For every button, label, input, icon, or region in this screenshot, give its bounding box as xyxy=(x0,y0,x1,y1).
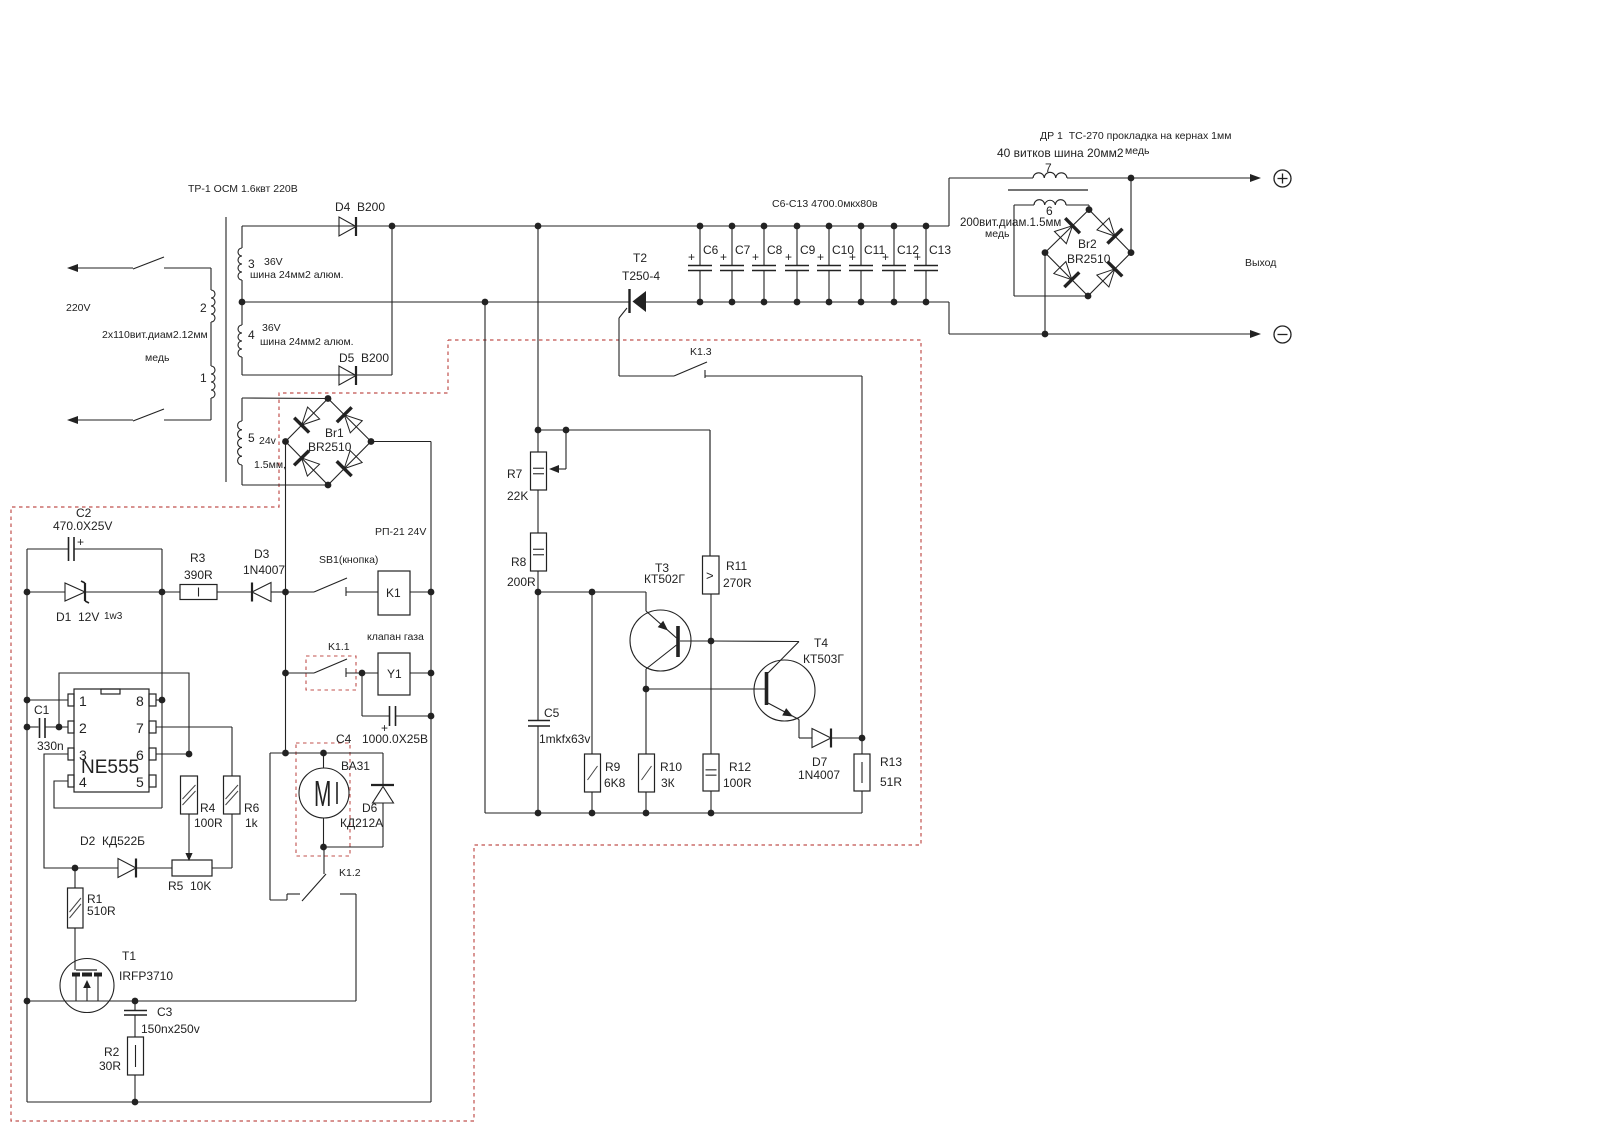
svg-text:D2 КД522Б: D2 КД522Б xyxy=(80,834,145,848)
wire left supply rail xyxy=(26,549,28,1102)
svg-text:С6-С13 4700.0мкх80в: С6-С13 4700.0мкх80в xyxy=(772,198,878,210)
svg-text:2: 2 xyxy=(200,301,207,315)
wire motor bottom xyxy=(320,844,383,851)
junction R7 top link xyxy=(535,427,542,434)
op-amp U1 NE555 body xyxy=(68,689,156,792)
wire T3 base to T4 collector xyxy=(711,640,799,643)
svg-text:1w3: 1w3 xyxy=(104,611,123,622)
resistor R4 xyxy=(181,776,224,830)
svg-text:1N4007: 1N4007 xyxy=(798,768,840,782)
transformer secondary winding 5 xyxy=(238,421,286,471)
bridge Br1 diode top-left xyxy=(294,407,319,432)
pin 2 label xyxy=(79,720,87,736)
wire K1.3 left xyxy=(619,375,674,377)
label primary winding note xyxy=(102,329,208,364)
svg-text:24v: 24v xyxy=(259,435,277,447)
wire K1 to right rail xyxy=(410,589,434,596)
wire Br1 plus rail down xyxy=(285,442,287,754)
svg-text:R2: R2 xyxy=(104,1045,120,1059)
pin 7 label xyxy=(136,720,144,736)
svg-text:3: 3 xyxy=(79,747,87,763)
diode D4 xyxy=(335,200,385,236)
resistor R3 xyxy=(162,551,252,600)
switch K1.3 xyxy=(674,346,712,378)
svg-text:T250-4: T250-4 xyxy=(622,269,660,283)
svg-text:1k: 1k xyxy=(245,816,259,830)
transformer secondary winding 4 xyxy=(238,322,354,357)
svg-text:1N4007: 1N4007 xyxy=(243,563,285,577)
svg-text:200вит.диам.1.5мм: 200вит.диам.1.5мм xyxy=(960,217,1061,229)
wire R4 wiper arrow xyxy=(185,814,192,861)
svg-text:Br2: Br2 xyxy=(1078,237,1097,251)
svg-text:36V: 36V xyxy=(264,256,283,268)
svg-text:D5 B200: D5 B200 xyxy=(339,351,389,365)
svg-text:+: + xyxy=(752,250,759,264)
svg-text:2х110вит.диам2.12мм: 2х110вит.диам2.12мм xyxy=(102,329,208,341)
svg-text:BR2510: BR2510 xyxy=(1067,252,1111,266)
wire R7-R8 xyxy=(537,490,539,533)
transistor T4 KT503G xyxy=(754,636,844,738)
wire winding6 right to Br2 top xyxy=(1066,205,1089,210)
svg-text:3К: 3К xyxy=(661,776,675,790)
svg-text:40 витков шина 20мм2: 40 витков шина 20мм2 xyxy=(997,146,1124,160)
capacitor C9 xyxy=(785,223,816,306)
label Vyhod xyxy=(1245,257,1276,269)
wire top rail xyxy=(242,225,949,227)
svg-text:C1: C1 xyxy=(34,703,50,717)
svg-text:8: 8 xyxy=(136,693,144,709)
wire secondary-4 bottom xyxy=(241,357,243,375)
svg-text:R10: R10 xyxy=(660,760,682,774)
wire SB1 left xyxy=(286,591,315,593)
wire center-tap branch vertical xyxy=(484,302,486,813)
svg-text:1000.0X25B: 1000.0X25B xyxy=(362,732,428,746)
svg-text:ТР-1 ОСМ 1.6квт 220В: ТР-1 ОСМ 1.6квт 220В xyxy=(188,183,298,195)
svg-text:51R: 51R xyxy=(880,775,902,789)
svg-text:390R: 390R xyxy=(184,568,213,582)
svg-text:R9: R9 xyxy=(605,760,621,774)
svg-text:470.0X25V: 470.0X25V xyxy=(53,519,112,533)
svg-text:КД212А: КД212А xyxy=(340,816,383,830)
svg-text:2: 2 xyxy=(79,720,87,736)
bridge Br1 edges xyxy=(286,399,372,486)
transformer secondary winding 3 xyxy=(238,248,344,281)
pin 5 label xyxy=(136,774,144,790)
svg-text:7: 7 xyxy=(1045,161,1052,175)
wire Br2 minus to output xyxy=(1042,253,1049,338)
label DR1 xyxy=(997,130,1231,160)
svg-text:R13: R13 xyxy=(880,755,902,769)
capacitor C2 xyxy=(27,506,162,561)
svg-text:220V: 220V xyxy=(66,302,91,314)
wire 220V top to primary xyxy=(164,268,211,290)
svg-text:Y1: Y1 xyxy=(387,667,402,681)
junction node center-tap xyxy=(239,299,246,306)
svg-text:R5 10K: R5 10K xyxy=(168,879,211,893)
wire motor top rail xyxy=(270,750,383,757)
capacitor C10 xyxy=(817,223,854,306)
svg-text:36V: 36V xyxy=(262,322,281,334)
svg-text:КТ502Г: КТ502Г xyxy=(644,572,685,586)
bridge Br2 diode bottom-left xyxy=(1054,262,1079,287)
wire secondary 3-4 junction xyxy=(241,280,243,325)
wire Br2 plus to output xyxy=(1130,178,1132,253)
svg-text:30R: 30R xyxy=(99,1059,121,1073)
wire pin1 xyxy=(24,697,68,704)
svg-text:100R: 100R xyxy=(723,776,752,790)
svg-text:1mkfx63v: 1mkfx63v xyxy=(539,732,590,746)
inductor DR1 winding 6 xyxy=(1034,200,1066,218)
svg-text:C2: C2 xyxy=(76,506,92,520)
svg-text:C5: C5 xyxy=(544,706,560,720)
wire SB1 to K1 xyxy=(346,591,378,593)
wire C4 right xyxy=(396,713,434,720)
svg-text:7: 7 xyxy=(136,720,144,736)
enclosure: red dashed box around motor/C4 block xyxy=(296,743,350,856)
svg-text:T4: T4 xyxy=(814,636,828,650)
svg-text:+: + xyxy=(849,250,856,264)
svg-text:330n: 330n xyxy=(37,739,64,753)
inductor DR1 core xyxy=(1008,189,1088,191)
svg-text:K1: K1 xyxy=(386,586,401,600)
svg-text:R4: R4 xyxy=(200,801,216,815)
wire D1 line xyxy=(24,589,166,596)
wire pin7 xyxy=(156,727,232,776)
label Br2 xyxy=(1067,237,1111,266)
svg-text:100R: 100R xyxy=(194,816,223,830)
resistor R6 xyxy=(224,776,260,830)
svg-text:D3: D3 xyxy=(254,547,270,561)
svg-text:IRFP3710: IRFP3710 xyxy=(119,969,173,983)
svg-text:C4: C4 xyxy=(336,732,352,746)
capacitor C3 xyxy=(124,1001,200,1037)
svg-text:+: + xyxy=(882,250,889,264)
terminal minus output xyxy=(1250,326,1291,343)
svg-text:+: + xyxy=(817,250,824,264)
pin 4 label xyxy=(79,774,87,790)
svg-text:D6: D6 xyxy=(362,801,378,815)
pin 6 label xyxy=(136,747,144,763)
svg-text:5: 5 xyxy=(136,774,144,790)
wire pin8 xyxy=(156,697,165,704)
diode D7 xyxy=(798,729,862,783)
bridge Br2 corner nodes xyxy=(1042,206,1135,299)
diode D3 xyxy=(243,547,286,602)
svg-text:6: 6 xyxy=(136,747,144,763)
wire K1.3 to R13 xyxy=(705,376,862,738)
junction top-rail R7 branch xyxy=(535,223,542,230)
wire wiper link xyxy=(538,427,710,556)
svg-text:22K: 22K xyxy=(507,489,528,503)
svg-text:шина 24мм2 алюм.: шина 24мм2 алюм. xyxy=(260,336,354,348)
svg-text:C3: C3 xyxy=(157,1005,173,1019)
svg-text:медь: медь xyxy=(145,352,170,364)
svg-text:+: + xyxy=(688,250,695,264)
transformer core xyxy=(225,217,227,482)
label capacitor bank C6-C13 xyxy=(772,198,878,210)
wire R1 top xyxy=(74,868,76,888)
junction K1.1 feed xyxy=(282,670,289,677)
wire R7 branch vertical xyxy=(537,226,539,452)
switch SW-bottom blade xyxy=(133,409,164,421)
capacitor C11 xyxy=(849,223,885,306)
diode D5 xyxy=(339,351,389,385)
svg-text:ДР 1 ТС-270 прокладка на керн: ДР 1 ТС-270 прокладка на кернах 1мм xyxy=(1040,130,1231,142)
svg-text:D4 B200: D4 B200 xyxy=(335,200,385,214)
wire 220V line bottom with arrow xyxy=(67,416,133,424)
resistor R8 xyxy=(507,533,547,589)
svg-text:+: + xyxy=(720,250,727,264)
wire T2 gate xyxy=(619,308,627,376)
svg-text:клапан газа: клапан газа xyxy=(367,631,424,643)
bridge Br1 diode bottom-right xyxy=(337,451,362,476)
wire pin2-pin6 link xyxy=(59,673,189,754)
enclosure: red dashed control-unit boundary xyxy=(11,340,921,1121)
zener D1 xyxy=(56,581,123,624)
wire pin2 xyxy=(45,726,68,728)
junction center-rail branch xyxy=(482,299,489,306)
resistor R1 xyxy=(68,888,117,928)
svg-text:РП-21 24V: РП-21 24V xyxy=(375,526,426,538)
junction D7 cathode xyxy=(859,735,866,742)
svg-text:R6: R6 xyxy=(244,801,260,815)
label 220V input xyxy=(66,302,91,314)
wire C4 left xyxy=(362,673,389,716)
bridge Br1 diode bottom-left xyxy=(294,451,319,476)
wire secondary-5 top xyxy=(241,398,243,421)
svg-text:шина 24мм2 алюм.: шина 24мм2 алюм. xyxy=(250,269,344,281)
svg-text:D1 12V: D1 12V xyxy=(56,610,99,624)
svg-text:6: 6 xyxy=(1046,204,1053,218)
switch K1.1 xyxy=(314,641,350,677)
svg-text:C13: C13 xyxy=(929,243,951,257)
junction D4 cathode xyxy=(389,223,396,230)
label Br1 xyxy=(308,426,352,454)
svg-text:SB1(кнопка): SB1(кнопка) xyxy=(319,554,378,566)
svg-text:K1.3: K1.3 xyxy=(690,346,712,358)
bridge Br2 diode bottom-right xyxy=(1097,262,1122,287)
wire 220V line top with arrow xyxy=(67,264,133,272)
svg-text:Br1: Br1 xyxy=(325,426,344,440)
motor BA31 xyxy=(299,753,370,847)
diode D6 xyxy=(340,753,394,847)
wire D5 line xyxy=(242,226,392,375)
transistor T1 IRFP3710 xyxy=(60,949,173,1013)
diode D2 xyxy=(80,834,145,878)
valve Y1 xyxy=(378,653,410,695)
wire secondary-3 top xyxy=(241,226,243,248)
resistor R2 xyxy=(99,1037,144,1075)
wire emitter line T3 xyxy=(538,589,646,596)
wire Y1 to right rail xyxy=(410,670,434,677)
wire D2 line xyxy=(44,865,172,872)
svg-text:270R: 270R xyxy=(723,576,752,590)
wire Vcc rail x162 xyxy=(161,549,163,808)
resistor R7 xyxy=(507,452,547,503)
wire R6 bottom xyxy=(212,814,232,868)
pin 3 label xyxy=(79,747,87,763)
transformer primary winding 1 xyxy=(200,366,215,398)
resistor R12 xyxy=(703,641,752,813)
svg-text:1.5мм,: 1.5мм, xyxy=(254,459,286,471)
enclosure: red dashed box around relay contact K1.1 xyxy=(306,656,356,690)
svg-text:медь: медь xyxy=(985,228,1010,240)
wire pin6 xyxy=(156,751,192,758)
svg-text:R11: R11 xyxy=(726,559,747,573)
wire motor loop left xyxy=(270,753,300,900)
resistor R13 xyxy=(854,738,902,813)
capacitor C4 xyxy=(336,706,428,746)
svg-text:C9: C9 xyxy=(800,243,816,257)
capacitor C8 xyxy=(752,223,783,306)
switch K1.2 xyxy=(302,847,361,901)
wire plus output xyxy=(949,178,1253,226)
svg-text:K1.2: K1.2 xyxy=(339,867,361,879)
wire coil5 to Br1 bottom xyxy=(242,484,328,486)
svg-text:1: 1 xyxy=(79,693,87,709)
label transformer TP-1 xyxy=(188,183,298,195)
svg-text:+: + xyxy=(785,250,792,264)
wire K1.1 left xyxy=(286,672,315,674)
svg-text:4: 4 xyxy=(248,328,255,342)
svg-text:C8: C8 xyxy=(767,243,783,257)
bridge Br2 diode top-left xyxy=(1054,218,1079,243)
bridge Br1 diode top-right xyxy=(337,407,362,432)
bridge Br2 edges xyxy=(1045,210,1131,296)
label klapan gaza xyxy=(367,631,424,643)
wire R2 bottom xyxy=(132,1075,139,1105)
svg-text:ВА31: ВА31 xyxy=(341,759,370,773)
junction T3 collector xyxy=(643,686,650,693)
capacitor C7 xyxy=(720,223,751,306)
capacitor C6 xyxy=(688,223,719,306)
label RP-21 xyxy=(375,526,426,538)
wire control block bottom rail xyxy=(485,810,862,817)
wire R8 bottom xyxy=(535,571,542,595)
pin 8 label xyxy=(136,693,144,709)
svg-text:Выход: Выход xyxy=(1245,257,1276,269)
svg-text:+: + xyxy=(77,535,84,549)
capacitor C12 xyxy=(882,223,919,306)
capacitor C5 xyxy=(528,592,590,813)
inductor DR1 winding 7 xyxy=(1033,161,1067,178)
wire primary mid xyxy=(210,322,212,366)
svg-text:150nx250v: 150nx250v xyxy=(141,1022,200,1036)
bridge Br2 diode top-right xyxy=(1097,218,1122,243)
junction C1 left xyxy=(24,724,31,731)
svg-text:>: > xyxy=(706,568,714,583)
thyristor T2 xyxy=(622,251,660,313)
svg-text:200R: 200R xyxy=(507,575,536,589)
resistor R9 xyxy=(585,592,626,813)
switch SB1 xyxy=(314,554,378,596)
wire minus output xyxy=(949,302,1253,334)
svg-text:R12: R12 xyxy=(729,760,751,774)
svg-text:K1.1: K1.1 xyxy=(328,641,350,653)
wire K1.2 to source rail xyxy=(340,894,356,1001)
wire R11 to T3 base xyxy=(708,594,715,644)
svg-text:6K8: 6K8 xyxy=(604,776,626,790)
pin 1 label xyxy=(79,693,87,709)
svg-text:C6: C6 xyxy=(703,243,719,257)
svg-text:D7: D7 xyxy=(812,755,828,769)
resistor R10 xyxy=(639,689,683,813)
svg-text:NE555: NE555 xyxy=(81,757,139,778)
svg-text:4: 4 xyxy=(79,774,87,790)
wire T3 collector to T4 base xyxy=(646,688,765,690)
terminal plus output xyxy=(1250,170,1291,187)
junction pin2 link xyxy=(56,724,63,731)
capacitor C1 xyxy=(27,703,68,753)
svg-text:BR2510: BR2510 xyxy=(308,440,352,454)
wire bottom return rail xyxy=(27,1101,431,1103)
svg-text:1: 1 xyxy=(200,371,207,385)
svg-text:медь: медь xyxy=(1125,145,1150,157)
svg-text:5: 5 xyxy=(248,431,255,445)
junction SB1 feed xyxy=(282,589,289,596)
svg-text:T1: T1 xyxy=(122,949,136,963)
wire Br1 minus to right rail xyxy=(371,442,431,1103)
wire R7 wiper xyxy=(549,430,566,473)
wire 220V bottom to primary xyxy=(164,398,211,420)
wire source rail xyxy=(24,998,356,1005)
svg-text:510R: 510R xyxy=(87,904,116,918)
svg-text:R3: R3 xyxy=(190,551,206,565)
svg-text:R8: R8 xyxy=(511,555,527,569)
transistor T3 KT502G xyxy=(630,561,711,689)
resistor R11 xyxy=(703,430,753,594)
junction plus line / Br2 xyxy=(1128,175,1135,182)
wire pin4 xyxy=(54,781,162,808)
svg-text:+: + xyxy=(914,250,921,264)
wire K1.1 to Y1 xyxy=(346,670,378,677)
bridge Br1 corner nodes xyxy=(282,395,374,488)
svg-text:M: M xyxy=(314,774,331,814)
wire secondary-5 bottom xyxy=(241,465,243,485)
svg-text:T2: T2 xyxy=(633,251,647,265)
switch SW-top blade xyxy=(133,257,164,269)
capacitor C13 xyxy=(914,223,951,306)
wire coil5 to Br1 top xyxy=(242,397,328,400)
svg-text:R7: R7 xyxy=(507,467,523,481)
wire center rail xyxy=(242,301,949,303)
potentiometer R5 xyxy=(168,860,212,893)
label winding 6 note xyxy=(960,217,1061,240)
transformer primary winding 2 xyxy=(200,290,215,322)
svg-text:C7: C7 xyxy=(735,243,751,257)
relay coil K1 xyxy=(378,571,410,615)
wire winding6 left to Br2 bottom xyxy=(1014,205,1088,296)
svg-text:КТ503Г: КТ503Г xyxy=(803,652,844,666)
wire pin3 xyxy=(44,754,75,868)
wire R1 to gate xyxy=(74,928,76,970)
